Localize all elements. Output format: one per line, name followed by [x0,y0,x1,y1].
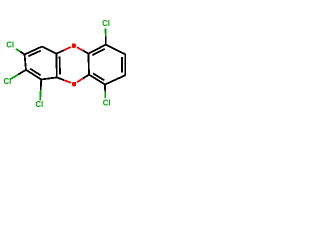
svg-text:Cl: Cl [3,77,11,86]
svg-text:Cl: Cl [35,100,43,109]
svg-text:Cl: Cl [103,98,111,107]
svg-text:Cl: Cl [102,19,110,28]
svg-text:Cl: Cl [6,40,14,49]
